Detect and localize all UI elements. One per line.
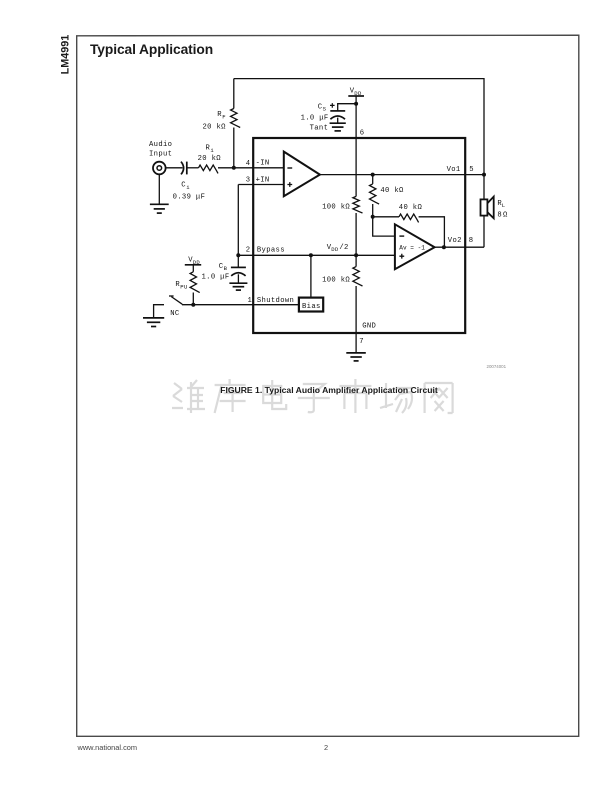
wire: RF top stub	[233, 79, 235, 109]
node: bias tap	[309, 253, 313, 257]
wire: Ri to pin4 -IN and into op-amp U1	[218, 167, 284, 169]
op-amp U1 plus	[287, 182, 292, 187]
svg-text:20 kΩ: 20 kΩ	[203, 124, 227, 132]
watermark 维库电子市场网 (approximated strokes)	[168, 376, 466, 418]
svg-text:Shutdown: Shutdown	[257, 297, 294, 305]
svg-text:Bias: Bias	[302, 303, 321, 311]
svg-text:S: S	[323, 106, 327, 113]
node: Vo2 output junction	[442, 245, 446, 249]
svg-text:7: 7	[359, 338, 364, 346]
svg-text:1.0 μF: 1.0 μF	[202, 274, 230, 282]
wire: RF bottom to -IN node	[233, 128, 235, 168]
svg-text:6: 6	[360, 130, 365, 138]
speaker RL	[481, 199, 488, 215]
resistor 40k horizontal	[399, 214, 419, 222]
svg-text:DD: DD	[193, 259, 201, 266]
wire: U2 output Vo2 to speaker node	[435, 246, 484, 248]
node: bypass/CB junction	[236, 253, 240, 257]
wire: 40k-1 bottom to node	[372, 204, 374, 217]
wire: shutdown pin1 from switch to Bias box	[182, 304, 299, 306]
op-amp U2 minus	[399, 235, 404, 237]
svg-text:i: i	[186, 184, 190, 191]
svg-text:DD: DD	[354, 90, 362, 97]
op-amp U2 plus	[399, 254, 404, 259]
node: Vo1/40k junction	[371, 173, 375, 177]
wire: 100k lower to GND pin7 and ground	[355, 286, 357, 353]
watermark char 市	[339, 379, 371, 413]
power rail VDD top bar	[348, 95, 364, 97]
wire: RPU to shutdown pin1 wire	[192, 293, 194, 305]
resistor 100k lower	[353, 267, 363, 286]
footer page number	[324, 743, 328, 752]
wire: 40k-1 top stub from Vo1	[372, 175, 374, 184]
node: RPU/shutdown junction	[191, 303, 195, 307]
section title	[90, 42, 213, 57]
switch arm tick	[169, 295, 174, 297]
wire: bypass / VDD/2 rail to op-amp U2 + input	[238, 254, 395, 256]
ground (CB)	[229, 283, 247, 290]
polarity + (CS)	[330, 103, 335, 108]
svg-text:100 kΩ: 100 kΩ	[322, 204, 350, 212]
wire: 40k-2 to Vo2 node	[419, 217, 445, 247]
capacitor Ci plates	[181, 162, 184, 175]
resistor 100k upper	[353, 196, 363, 213]
wire: node to 40k-2	[373, 216, 399, 218]
wire: jack sleeve to ground	[158, 174, 160, 204]
capacitor CS plates	[330, 110, 345, 112]
sidebar part number LM4991	[60, 30, 71, 78]
op-amp U2 Av=-1	[395, 224, 435, 269]
svg-text:2: 2	[246, 246, 251, 254]
svg-text:DD: DD	[331, 246, 339, 253]
wire: Ci to Ri	[187, 167, 199, 169]
resistor 40k vertical	[370, 184, 380, 204]
wire: VDD column pin6 down to upper 100k	[355, 96, 357, 196]
svg-text:40 kΩ: 40 kΩ	[399, 204, 423, 212]
svg-text:L: L	[502, 202, 506, 209]
svg-text:Tant: Tant	[310, 124, 329, 132]
wire: bias tap down to Bias box	[310, 255, 312, 297]
svg-text:20 kΩ: 20 kΩ	[198, 155, 222, 163]
footer url	[78, 743, 138, 752]
switch arm	[171, 297, 182, 305]
op-amp U1	[284, 152, 320, 197]
wire: top feedback from RF to Vo1 node	[234, 79, 484, 175]
wire: CS tap from VDD column	[338, 104, 356, 111]
svg-text:40 kΩ: 40 kΩ	[380, 187, 404, 195]
watermark char 网	[425, 383, 453, 413]
wire: CS to ground	[337, 118, 339, 123]
capacitor CB stub	[237, 255, 239, 267]
svg-text:PU: PU	[180, 284, 187, 291]
svg-text:3: 3	[246, 177, 251, 185]
svg-text:/2: /2	[339, 244, 348, 252]
figure id 20074001	[487, 364, 507, 369]
resistor Ri 20k	[199, 165, 219, 173]
svg-text:0.39 μF: 0.39 μF	[173, 194, 206, 202]
ground (CS)	[330, 123, 346, 131]
svg-text:1.0 μF: 1.0 μF	[301, 114, 329, 122]
svg-text:Input: Input	[149, 150, 172, 158]
wire: switch left contact to ground	[154, 305, 164, 318]
figure caption	[0, 385, 612, 395]
wire: node down to U2 - input	[373, 217, 395, 236]
Bias box	[299, 298, 323, 312]
wire: VDD bar to RPU	[192, 265, 194, 272]
svg-text:4: 4	[246, 160, 251, 168]
input jack J1	[153, 162, 166, 175]
wire: 100k upper to VDD/2 node	[355, 213, 357, 267]
svg-text:+IN: +IN	[256, 176, 270, 184]
wire: jack to Ci	[166, 167, 183, 169]
svg-text:F: F	[222, 113, 226, 120]
resistor RPU	[190, 272, 200, 293]
svg-text:Vo1: Vo1	[447, 166, 461, 174]
svg-text:8 Ω: 8 Ω	[497, 211, 508, 219]
wire: U1 output Vo1 to speaker node	[320, 174, 484, 176]
wire: speaker column Vo1 to Vo2	[483, 175, 485, 248]
svg-text:Av = -1: Av = -1	[399, 245, 425, 252]
IC box U1	[253, 138, 465, 333]
svg-text:GND: GND	[362, 322, 376, 330]
ground (switch NC)	[143, 318, 164, 327]
svg-text:-IN: -IN	[256, 160, 270, 168]
svg-text:B: B	[224, 265, 228, 272]
svg-text:Bypass: Bypass	[257, 246, 285, 254]
svg-text:5: 5	[469, 166, 474, 174]
watermark char 电	[263, 380, 286, 409]
svg-text:1: 1	[248, 297, 253, 305]
svg-text:NC: NC	[170, 310, 180, 318]
op-amp U1 minus	[287, 167, 292, 169]
node: -IN input junction	[232, 166, 236, 170]
wire: +IN down to bypass node	[237, 185, 239, 256]
svg-text:8: 8	[469, 237, 474, 245]
svg-text:i: i	[210, 147, 214, 154]
power rail VDD for RPU	[185, 264, 201, 266]
ground (jack)	[150, 204, 169, 213]
watermark char 场	[380, 383, 412, 413]
svg-text:Vo2: Vo2	[448, 237, 462, 245]
svg-text:Audio: Audio	[149, 141, 172, 149]
node: 40k mid junction	[371, 215, 375, 219]
watermark char 库	[215, 379, 246, 413]
svg-text:100 kΩ: 100 kΩ	[322, 277, 350, 285]
resistor RF 20k	[231, 109, 241, 128]
watermark char 维	[172, 380, 205, 413]
capacitor CB plates	[231, 266, 246, 268]
node: Vo1 speaker junction	[482, 173, 486, 177]
ground (GND pin7)	[346, 353, 366, 361]
wire: pin3 +IN into op-amp U1	[238, 184, 283, 186]
watermark char 子	[298, 384, 330, 412]
node: CS tap	[354, 102, 358, 106]
wire: CB to ground	[237, 274, 239, 282]
node: VDD/2 junction	[354, 253, 358, 257]
